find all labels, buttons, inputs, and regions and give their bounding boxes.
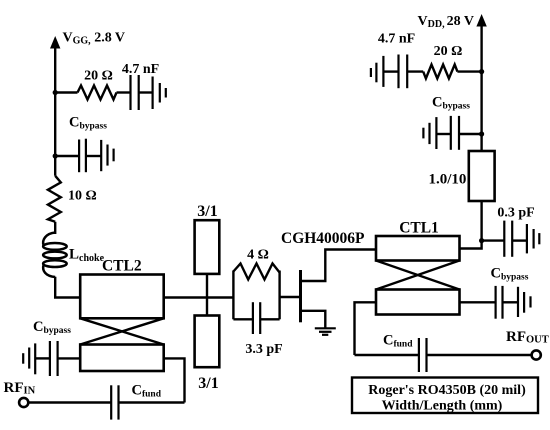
capacitor C bypass (drain) [451,116,459,150]
svg-text:1.0/10: 1.0/10 [429,172,467,188]
wire C fund to riser [119,401,185,403]
wire CTL2 lower to RFin riser [164,358,185,402]
wire resistor to C 4.7nF (drain) [407,70,423,72]
wire VDD vertical feed [480,24,482,151]
wire output line right [427,354,531,356]
resistor R 10 ohm (series) [48,176,61,222]
wire gate lead [280,296,301,298]
wire lower stub [206,298,208,316]
svg-text:3/1: 3/1 [198,375,218,392]
svg-text:Cbypass: Cbypass [491,266,529,283]
svg-text:20 Ω: 20 Ω [84,69,113,84]
coupled line CTL2 cross [80,318,164,344]
svg-text:CGH40006P: CGH40006P [281,230,365,247]
wire R10 to choke [54,222,56,234]
wire output line left [355,354,419,356]
svg-text:4.7 nF: 4.7 nF [378,32,415,47]
svg-text:3/1: 3/1 [197,203,217,220]
wire node to C 0.3pF [482,239,505,241]
ground (sideways left, input bypass) [23,343,35,374]
svg-text:Cfund: Cfund [132,383,162,400]
junction node gate-bias 2 [53,153,58,158]
junction node drain feed [479,238,484,243]
svg-text:RFOUT: RFOUT [506,329,549,346]
ground (transistor source) [315,328,336,335]
svg-text:Roger's RO4350B (20 mil): Roger's RO4350B (20 mil) [368,383,526,398]
wire to C bypass (drain) [459,133,482,135]
ground (sideways left, drain bypass) [423,117,436,149]
ground (sideways right, 0.3pF) [527,224,539,253]
transmission line 1.0/10 rect [469,151,495,201]
capacitor C 4.7 nF [131,75,139,110]
wire cap to ground [512,239,527,241]
wire block to drain node [480,201,482,241]
capacitor C fund (output) [419,338,427,372]
svg-text:Lchoke: Lchoke [69,247,105,265]
stub 3/1 upper rect [195,220,220,274]
coupled line CTL2 upper bar [80,275,164,319]
supply arrow VDD [476,14,486,27]
ground (sideways right, gate bypass) [101,140,113,171]
wire cap to ground [503,301,519,303]
wire CTL2 to stub node [164,296,234,298]
wire node to CTL1 [460,241,482,249]
wire RFin to C fund [28,401,111,403]
resistor R 20 ohm (gate bias) [78,86,117,100]
wire cap to ground [436,133,450,135]
wire RC bottom left [233,318,253,320]
wire source lead [301,311,326,329]
svg-text:4 Ω: 4 Ω [247,248,269,263]
svg-text:Cfund: Cfund [383,333,413,350]
wire VGG vertical feed [54,46,56,176]
note box substrate [352,378,538,414]
wire drain lead [301,250,377,282]
capacitor C 0.3 pF [504,221,512,257]
node RC right bar [278,271,280,320]
wire to R 20ohm [55,91,77,93]
capacitor C 3.3 pF [253,302,260,334]
svg-text:Width/Length (mm): Width/Length (mm) [382,399,503,414]
stub 3/1 lower rect [195,316,220,368]
junction node drain-bias 2 [479,131,484,136]
wire CTL1 lower to C bypass (out) [460,301,496,303]
junction node gate-bias 1 [53,90,58,95]
wire RC bottom right [260,318,279,320]
ground (sideways right, output bypass) [518,287,531,317]
resistor R 4 ohm (parallel) [233,264,279,280]
capacitor C 4.7 nF (drain) [399,55,408,89]
coupled line CTL2 lower bar [80,345,164,372]
svg-text:Cbypass: Cbypass [432,95,470,112]
wire to R 20 ohm (drain) [457,70,481,72]
svg-text:VGG, 2.8 V: VGG, 2.8 V [63,31,126,47]
capacitor C fund (input) [111,385,118,419]
wire cap to ground [35,357,50,359]
svg-text:Cbypass: Cbypass [69,115,107,132]
wire choke to CTL2 [55,277,80,298]
wire cap to ground [383,70,398,72]
svg-text:CTL1: CTL1 [399,220,439,237]
coupled line CTL1 upper bar [376,236,460,261]
wire upper stub [206,274,208,298]
inductor L choke [43,233,67,278]
svg-text:VDD, 28 V: VDD, 28 V [418,14,474,30]
wire cap to ground [86,155,101,157]
svg-text:RFIN: RFIN [4,380,36,397]
coupled line CTL1 lower bar [376,290,460,315]
wire to C bypass (gate) [55,155,79,157]
ground (sideways left, drain 4.7nF) [371,56,384,87]
coupled line CTL1 cross [376,261,460,290]
capacitor C bypass (output side) [496,286,503,319]
wire resistor to C 4.7nF [117,91,131,93]
resistor R 20 ohm (drain bias) [423,65,457,79]
port RF IN terminal [19,398,28,407]
capacitor C bypass (input side) [50,341,58,376]
wire CTL1 lower to output line [355,302,377,355]
capacitor C bypass (gate) [79,139,86,173]
transistor Q CGH40006P bar [299,270,302,322]
wire cap to ground [139,91,153,93]
svg-text:Cbypass: Cbypass [33,319,71,336]
svg-text:0.3 pF: 0.3 pF [497,206,534,221]
junction node drain-bias 1 [479,69,484,74]
svg-text:3.3 pF: 3.3 pF [245,342,282,357]
svg-text:20 Ω: 20 Ω [434,44,463,59]
svg-text:4.7 nF: 4.7 nF [122,62,159,77]
node RC left bar [232,271,234,320]
svg-text:10 Ω: 10 Ω [68,189,97,204]
port RF OUT terminal [532,350,541,359]
ground (sideways right, gate 4.7nF) [153,77,166,110]
supply arrow VGG [50,36,60,49]
svg-text:CTL2: CTL2 [102,258,142,275]
wire CTL2 lower to C bypass (left) [58,357,81,359]
